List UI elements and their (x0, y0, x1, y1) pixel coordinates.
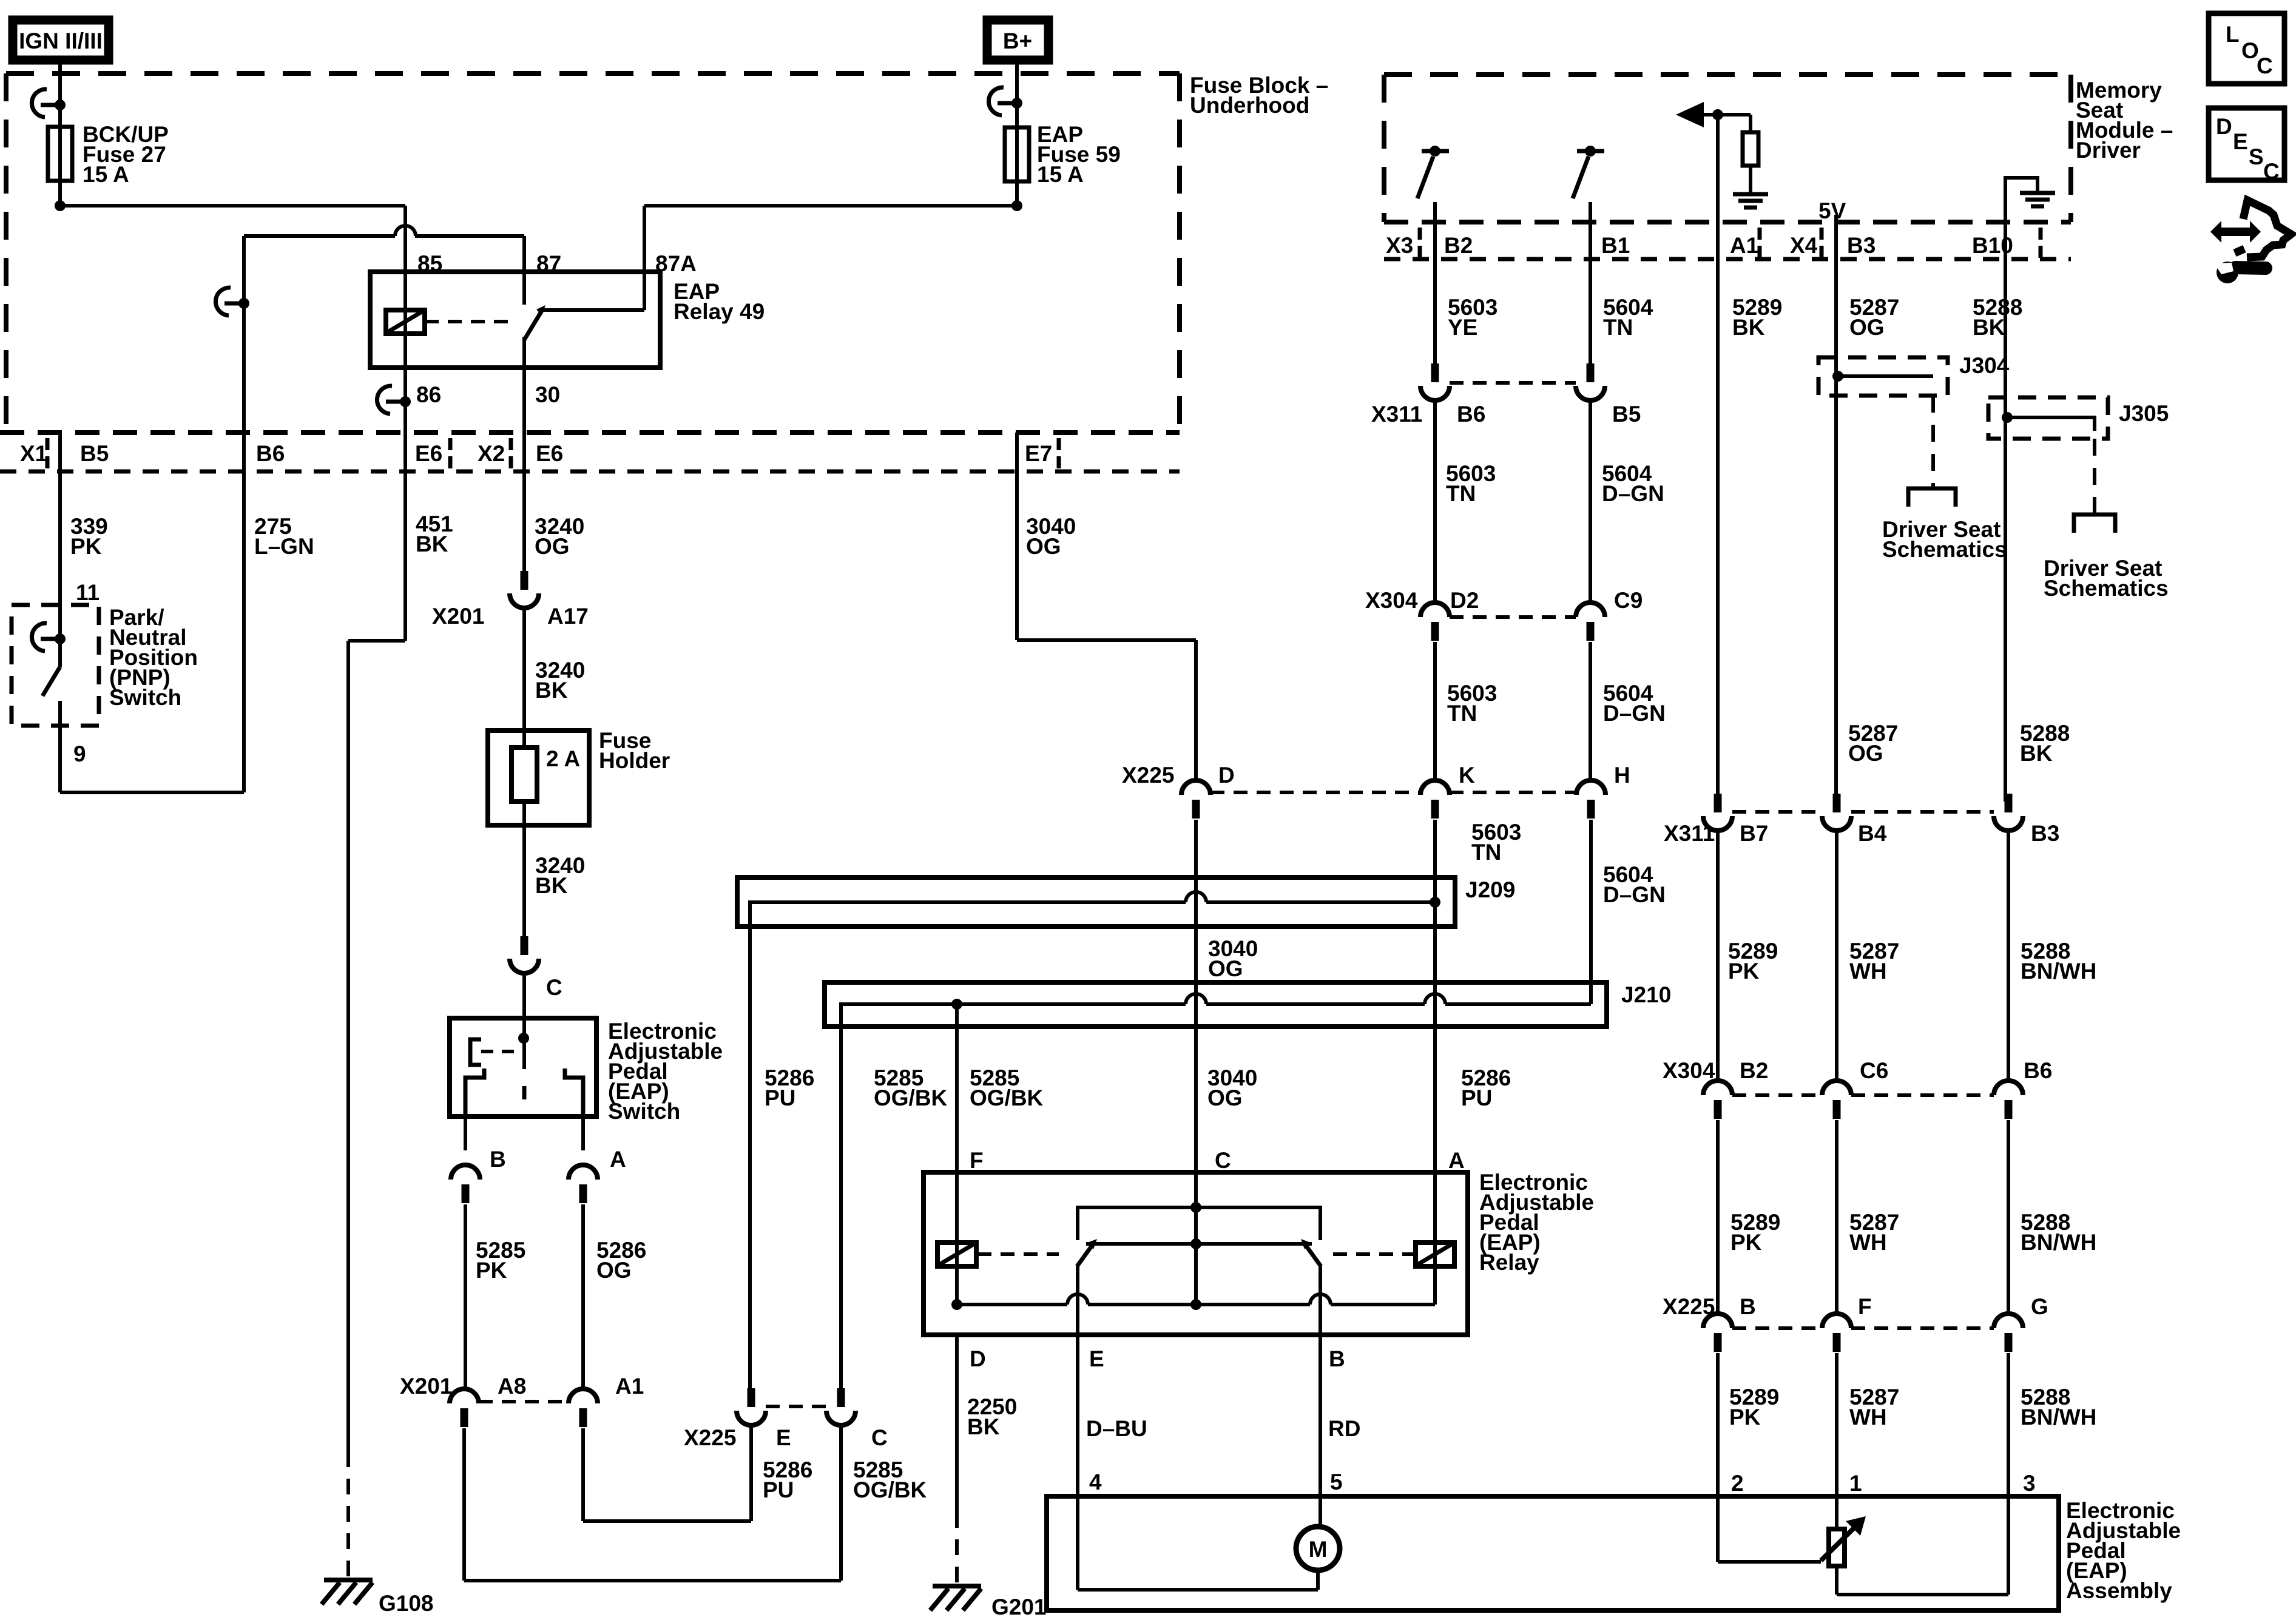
svg-text:4: 4 (1089, 1470, 1102, 1494)
node C on bottom bar (1190, 1299, 1201, 1310)
connector X201 A17 inline (521, 571, 528, 590)
svg-text:TN: TN (1446, 481, 1476, 506)
svg-text:C: C (1215, 1148, 1231, 1173)
connector X311 B5 (1587, 363, 1595, 382)
divider ticks on module connector row (1418, 228, 1422, 240)
DESC legend box (2209, 108, 2284, 180)
svg-text:87: 87 (536, 251, 561, 276)
svg-text:BK: BK (535, 678, 568, 703)
connector X311 B4 (1833, 794, 1841, 812)
svg-text:X311: X311 (1664, 821, 1715, 846)
ground G108 (324, 1578, 373, 1582)
svg-text:X1: X1 (20, 441, 47, 466)
svg-text:A1: A1 (1730, 233, 1758, 258)
module internal ground (A1) (1733, 192, 1768, 197)
svg-text:E6: E6 (536, 441, 563, 466)
svg-text:Switch: Switch (109, 685, 181, 710)
svg-text:X304: X304 (1365, 588, 1418, 613)
pedal position sensor feed pin 1 (1835, 1496, 1838, 1529)
svg-text:D–GN: D–GN (1603, 882, 1666, 907)
relay switch blade left (1077, 1244, 1093, 1266)
wire relay pin 86 down to E6 (403, 368, 407, 433)
power label box IGN II/III (13, 20, 109, 60)
wire 451 BK from E6 down (403, 433, 407, 641)
svg-text:J305: J305 (2119, 401, 2169, 426)
wire IGN feed from IGN II/III to fuse 27 (58, 64, 62, 206)
svg-text:TN: TN (1471, 840, 1501, 865)
svg-text:Relay: Relay (1479, 1250, 1539, 1275)
J305 dashed branch to driver seat (2093, 439, 2096, 510)
wire D-BU relay E to pedal motor (1076, 1335, 1079, 1496)
connector X311 B6 (1431, 363, 1439, 382)
connector X225 B (1703, 1314, 1732, 1328)
svg-text:X225: X225 (1122, 763, 1174, 788)
svg-text:L–GN: L–GN (254, 534, 314, 559)
dashes X225 D-K-H (1210, 791, 1420, 794)
svg-text:H: H (1614, 763, 1630, 788)
svg-text:OG: OG (596, 1258, 632, 1283)
connector row X3/X4 memory seat module (1384, 220, 2071, 224)
wire RD relay B to pedal motor (1319, 1335, 1322, 1496)
svg-text:J304: J304 (1959, 353, 2010, 378)
svg-text:B6: B6 (1457, 402, 1485, 427)
fuse F59 EAP 15A (1005, 127, 1029, 181)
svg-text:BN/WH: BN/WH (2021, 959, 2096, 984)
svg-text:Driver: Driver (2076, 138, 2141, 163)
svg-text:C: C (546, 975, 562, 1000)
node C on top bar (1190, 1202, 1201, 1213)
clamp actuator on PNP switch (32, 623, 47, 651)
wire 5603 TN from X225 K to J209 (1433, 820, 1437, 902)
svg-text:C: C (2257, 53, 2273, 78)
svg-text:BK: BK (967, 1414, 1000, 1439)
node splice J209 to 5286 PU drop (1430, 897, 1440, 908)
svg-text:D: D (1218, 763, 1235, 788)
svg-text:X2: X2 (478, 441, 505, 466)
relay coil 1 (F) (955, 1172, 959, 1305)
svg-text:C6: C6 (1860, 1058, 1888, 1083)
svg-text:J209: J209 (1465, 877, 1515, 902)
Fuse Block - Underhood dashed outline (6, 71, 1180, 76)
svg-text:A: A (610, 1147, 626, 1172)
svg-text:Underhood: Underhood (1190, 93, 1309, 118)
svg-text:X201: X201 (432, 604, 484, 629)
svg-text:X201: X201 (400, 1374, 452, 1399)
svg-text:OG: OG (1848, 741, 1883, 766)
svg-text:OG/BK: OG/BK (853, 1477, 927, 1502)
connector X225 K (1420, 780, 1450, 795)
svg-text:PK: PK (1728, 959, 1760, 984)
module 5V stub B3 (1834, 215, 1838, 222)
svg-text:B5: B5 (80, 441, 109, 466)
svg-text:WH: WH (1849, 1405, 1887, 1430)
svg-text:J210: J210 (1621, 982, 1671, 1007)
Memory Seat Module - Driver dashed outline (1384, 72, 2071, 77)
dashes X311 B7-B4-B3 (1732, 810, 1822, 814)
wire bus from fuse 27 to relay pin 85 (60, 204, 405, 208)
svg-text:X311: X311 (1371, 402, 1422, 427)
connector X225 F (1822, 1314, 1851, 1328)
svg-text:RD: RD (1328, 1416, 1360, 1441)
splice box J304 dashed (1818, 357, 1948, 396)
wire 5285 OG/BK from J210 to relay F (955, 1004, 959, 1172)
wire 3040 OG from X225 D through J209/J210 to relay C (1194, 820, 1198, 1207)
wire relay pin 30 down to E6 (X2) (522, 368, 526, 433)
wire 3240 OG from relay 30 / X2-E6 down to X201 (522, 433, 526, 571)
svg-text:15 A: 15 A (83, 162, 129, 187)
module internal ground (B10) (2020, 191, 2055, 195)
wire 5288 BK from B10 through J305 (2004, 222, 2007, 802)
potentiometer wiper arrow (1821, 1524, 1858, 1561)
svg-text:1: 1 (1849, 1471, 1862, 1496)
wire bus from fuse 59 to relay pin 87A (644, 204, 1017, 208)
svg-text:BK: BK (1732, 315, 1765, 340)
relay 49 coil-to-contact dashed link (425, 320, 513, 323)
EAP relay assembly box (923, 1172, 1468, 1335)
wire 5288 BN/WH X225 G to pedal pin 3 (2007, 1353, 2010, 1496)
wire 5287 WH X304 C6 to X225 F (1835, 1120, 1838, 1314)
motor return loop (1076, 1496, 1079, 1590)
svg-text:A17: A17 (547, 604, 589, 629)
node J304 splice (1832, 371, 1843, 382)
svg-text:D: D (970, 1346, 986, 1371)
svg-text:YE: YE (1448, 315, 1477, 340)
connector row X1/X2 fuse block bottom (0, 430, 1180, 435)
svg-text:PK: PK (476, 1258, 507, 1283)
svg-text:E: E (2233, 129, 2248, 154)
relay coil 2 (A) (1433, 1172, 1437, 1305)
dashes X311 B6-B5 (1450, 381, 1576, 385)
svg-text:TN: TN (1603, 315, 1633, 340)
svg-text:OG: OG (1026, 534, 1061, 559)
wire A1 down and across to X225 E (581, 1428, 585, 1521)
svg-text:S: S (2249, 144, 2264, 169)
ground G201 (933, 1584, 981, 1588)
wire B from blade through bottom (1319, 1266, 1322, 1335)
svg-text:X304: X304 (1663, 1058, 1715, 1083)
svg-text:B4: B4 (1858, 821, 1887, 846)
navigation arrow-wrench icon (2210, 221, 2261, 243)
svg-text:WH: WH (1849, 959, 1887, 984)
node J210 tap to relay F (951, 999, 962, 1010)
svg-text:OG: OG (1208, 956, 1243, 981)
relay top bar E-B (1078, 1207, 1320, 1240)
connector B inline (451, 1165, 480, 1180)
fuse holder box (488, 731, 589, 825)
svg-text:87A: 87A (655, 251, 697, 276)
wire EAP switch A to connector (581, 1116, 585, 1150)
wire E from blade through bottom (1076, 1266, 1079, 1335)
wire EAP fuse feed from B+ (1015, 64, 1019, 206)
svg-text:B: B (1740, 1294, 1756, 1319)
relay 49 coil (403, 272, 407, 368)
svg-text:E: E (1089, 1346, 1104, 1371)
svg-text:Switch: Switch (608, 1099, 680, 1124)
wire 5285 OG/BK from J210 to X225 C (839, 1007, 843, 1388)
wire 5287 OG from B3 through J304 (1834, 222, 1838, 802)
position sensor potentiometer (1829, 1529, 1845, 1566)
svg-text:B: B (490, 1147, 506, 1172)
connector X225 G (1994, 1314, 2023, 1328)
svg-text:B6: B6 (256, 441, 285, 466)
EAP assembly box (1047, 1496, 2059, 1610)
connector row X201 A8 / A1 (450, 1389, 479, 1403)
J305 splice branch (2007, 417, 2095, 431)
svg-text:OG: OG (535, 534, 570, 559)
node J305 splice (2002, 412, 2013, 423)
splice J210 internal wire (841, 1004, 1186, 1027)
svg-text:85: 85 (417, 251, 442, 276)
connector X304 C6 (1822, 1081, 1851, 1095)
svg-text:OG: OG (1849, 315, 1885, 340)
wire 5288 BN/WH X304 B6 to X225 G (2007, 1120, 2010, 1314)
wire 5604 D-GN from X311 B5 to X304 C9 (1589, 400, 1592, 603)
svg-text:E: E (776, 1425, 791, 1450)
wire EAP switch B to connector (464, 1116, 467, 1150)
splice J209 internal wire (750, 902, 1186, 904)
svg-text:F: F (970, 1148, 984, 1173)
power label box B+ (987, 20, 1048, 60)
svg-text:Relay 49: Relay 49 (674, 299, 765, 324)
wire 5289 PK X304 B2 to X225 B (1716, 1120, 1720, 1314)
svg-text:15 A: 15 A (1037, 162, 1084, 187)
svg-text:L: L (2226, 22, 2240, 47)
wire C inside relay (1194, 1207, 1198, 1305)
svg-text:C: C (871, 1425, 888, 1450)
svg-text:9: 9 (73, 741, 86, 766)
wire 451 BK dashed tail to G108 (346, 1451, 350, 1578)
wire 87 bus with crossover bump to B6 drop (415, 234, 524, 238)
module output driver A1 with arrow (1716, 115, 1720, 222)
wire 5288 BN/WH X311 B3 to X304 B6 (2007, 831, 2010, 1081)
wire 5603 YE from B2 to X311 B6 (1433, 222, 1437, 365)
wire 451 BK jog toward G108 (348, 639, 405, 643)
J304 splice branch (1838, 374, 1933, 378)
wire A8 down and across to X225 C (462, 1428, 466, 1581)
connector X304 D2 (1420, 603, 1450, 617)
relay mid bar (1086, 1242, 1312, 1246)
svg-text:86: 86 (416, 382, 441, 407)
svg-text:B1: B1 (1601, 233, 1630, 258)
wire 5289 PK X311 B7 to X304 B2 (1716, 831, 1720, 1081)
svg-text:PU: PU (765, 1085, 795, 1110)
svg-text:2 A: 2 A (546, 746, 580, 771)
svg-text:B5: B5 (1612, 402, 1641, 427)
dashes X304 D2-C9 (1450, 615, 1576, 619)
fuse 2A inside holder (512, 748, 537, 802)
wire 5603 TN from X311 B6 to X304 D2 (1433, 400, 1437, 603)
wire 5603 TN from X304 D2 to X225 K (1433, 642, 1437, 780)
svg-text:WH: WH (1849, 1230, 1887, 1255)
svg-text:Schematics: Schematics (2044, 576, 2169, 601)
svg-text:BK: BK (2020, 741, 2053, 766)
svg-text:PK: PK (1729, 1405, 1761, 1430)
connector X304 B2 (1703, 1081, 1732, 1095)
svg-text:OG/BK: OG/BK (874, 1085, 948, 1110)
connector X304 C9 (1576, 603, 1605, 617)
svg-text:B7: B7 (1740, 821, 1768, 846)
svg-text:X225: X225 (684, 1425, 736, 1450)
wire 5286 PU (A coil feed) from J209 down to relay A (1433, 902, 1437, 1172)
connector X311 B7 (1714, 794, 1722, 812)
J304 dashed branch to driver seat (1931, 396, 1935, 485)
svg-text:B3: B3 (1847, 233, 1876, 258)
splice box J209 (737, 877, 1455, 927)
svg-text:B6: B6 (2024, 1058, 2052, 1083)
svg-text:F: F (1858, 1294, 1872, 1319)
svg-text:X3: X3 (1386, 233, 1413, 258)
svg-text:D–BU: D–BU (1086, 1416, 1147, 1441)
svg-text:G: G (2031, 1294, 2048, 1319)
svg-text:5: 5 (1330, 1470, 1343, 1494)
EAP switch actuator dashed link (481, 1050, 518, 1053)
dashes X304 B2-C6-B6 (1732, 1093, 1822, 1097)
EAP switch contact A (565, 1068, 583, 1116)
svg-text:C9: C9 (1614, 588, 1643, 613)
svg-text:B+: B+ (1003, 29, 1032, 53)
svg-text:3: 3 (2023, 1471, 2036, 1496)
svg-text:BN/WH: BN/WH (2021, 1230, 2096, 1255)
svg-text:OG/BK: OG/BK (970, 1085, 1044, 1110)
svg-text:X4: X4 (1790, 233, 1818, 258)
wire 5287 WH X311 B4 to X304 C6 (1835, 831, 1838, 1081)
relay 49 switch blade (524, 311, 542, 340)
svg-text:2: 2 (1731, 1471, 1744, 1496)
svg-text:G108: G108 (379, 1591, 434, 1616)
EAP switch contact B (465, 1068, 484, 1116)
svg-text:Holder: Holder (599, 748, 670, 773)
svg-text:PU: PU (1461, 1085, 1492, 1110)
fuse F27 BCK/UP 15A (48, 127, 72, 181)
svg-text:A8: A8 (498, 1374, 526, 1399)
connector X225 D (1181, 780, 1210, 795)
connector X225 H (1576, 780, 1606, 795)
svg-text:D–GN: D–GN (1603, 701, 1666, 726)
wire 5289 PK X225 B to pedal pin 2 (1716, 1353, 1720, 1496)
memory seat switch B2 (1422, 149, 1449, 154)
svg-text:B2: B2 (1740, 1058, 1768, 1083)
svg-text:BK: BK (535, 873, 568, 898)
svg-text:IGN II/III: IGN II/III (19, 29, 103, 53)
module internal ground lead B10 (2005, 178, 2038, 222)
clamp terminal on IGN feed (32, 89, 47, 117)
memory seat switch B1 (1577, 149, 1604, 154)
node junction at fuse 59 output (1011, 200, 1022, 211)
svg-text:K: K (1459, 763, 1475, 788)
relay 49 contact 87A lead (542, 308, 644, 312)
wire 5604 TN from B1 to X311 B5 (1589, 222, 1592, 365)
svg-text:OG: OG (1207, 1085, 1243, 1110)
svg-text:D2: D2 (1450, 588, 1479, 613)
connector row X225 E / C (748, 1388, 755, 1407)
relay coil 1 dashed link (977, 1252, 1059, 1256)
svg-text:B3: B3 (2031, 821, 2059, 846)
svg-text:E6: E6 (415, 441, 442, 466)
svg-text:BK: BK (416, 532, 448, 556)
wire 5604 D-GN from X225 H to J210 (1589, 820, 1593, 1004)
connector C inline to EAP switch (521, 936, 528, 955)
clamp terminal on B+ feed (988, 87, 1004, 115)
splice box J305 dashed (1988, 397, 2108, 439)
LOC legend box (2209, 13, 2284, 84)
svg-text:A1: A1 (615, 1374, 644, 1399)
relay switch blade right (1305, 1244, 1321, 1266)
wire 3240 BK from fuse holder to connector C (522, 825, 526, 936)
svg-text:PU: PU (763, 1477, 794, 1502)
svg-text:M: M (1309, 1537, 1328, 1562)
svg-text:5V: 5V (1818, 198, 1846, 223)
wire 2250 BK relay D to G201 (955, 1335, 959, 1512)
svg-text:B2: B2 (1444, 233, 1473, 258)
divider ticks on connector row (46, 438, 50, 450)
connector X311 B3 (2005, 794, 2013, 812)
relay coil 2 dashed link (1333, 1252, 1414, 1256)
svg-text:A: A (1448, 1148, 1465, 1173)
Park/Neutral Position switch dashed box (12, 605, 99, 726)
relay bottom bar (957, 1303, 1067, 1306)
module internal resistor (1749, 115, 1752, 132)
svg-text:30: 30 (535, 382, 560, 407)
wire 3040 OG from E7 to X225 D (1015, 433, 1019, 640)
motor M circle (1319, 1496, 1322, 1528)
pin 3 sensor return (2007, 1496, 2010, 1595)
wire 5287 WH X225 F to pedal pin 1 (1835, 1353, 1838, 1496)
wire 3240 BK to fuse holder (522, 608, 526, 731)
node F-D junction on bottom bar (951, 1299, 962, 1310)
node junction at fuse 27 output (55, 200, 66, 211)
EAP switch common node (518, 1033, 529, 1044)
svg-text:X225: X225 (1663, 1294, 1715, 1319)
connector X304 B6 (1994, 1081, 2023, 1095)
clamp terminal on pin 86 wire (377, 386, 392, 414)
splice box J210 (825, 982, 1607, 1027)
svg-text:PK: PK (1730, 1230, 1762, 1255)
node C on mid bar (1190, 1238, 1201, 1249)
pin 2 wiper lead (1716, 1496, 1720, 1562)
svg-text:G201: G201 (991, 1595, 1047, 1617)
EAP switch box (450, 1018, 596, 1116)
EAP switch blade dash (522, 1086, 527, 1099)
svg-text:Schematics: Schematics (1882, 537, 2007, 562)
PNP switch blade (42, 667, 60, 696)
svg-text:B: B (1329, 1346, 1345, 1371)
svg-text:C: C (2263, 159, 2280, 184)
svg-text:BN/WH: BN/WH (2021, 1405, 2096, 1430)
svg-text:11: 11 (76, 580, 100, 605)
wire 5286 PU from J209 to X225 E (748, 902, 752, 1388)
connector A inline (569, 1165, 598, 1180)
svg-text:BK: BK (1973, 315, 2005, 340)
relay EAP Relay 49 box (370, 272, 660, 368)
svg-text:D: D (2216, 114, 2232, 139)
wire 5604 D-GN from X304 C9 to X225 H (1589, 642, 1592, 780)
svg-text:E7: E7 (1025, 441, 1052, 466)
wire pin 9 of PNP switch (58, 701, 62, 792)
svg-text:Assembly: Assembly (2066, 1578, 2172, 1603)
svg-text:PK: PK (70, 534, 102, 559)
dashes X225 B-F-G (1732, 1326, 1822, 1330)
wire 5289 BK from A1 down to X311 B7 (1716, 222, 1720, 802)
clamp terminal on B6 drop wire (215, 288, 231, 316)
svg-text:D–GN: D–GN (1602, 481, 1664, 506)
svg-text:TN: TN (1447, 701, 1477, 726)
wire pin9 loop to 275 L-GN riser (60, 791, 244, 794)
wire 339 PK from B5 to PNP switch (58, 433, 62, 667)
